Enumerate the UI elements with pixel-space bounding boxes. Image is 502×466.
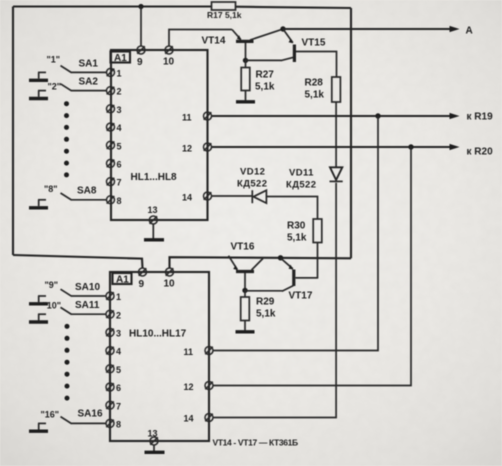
svg-text:R30: R30 (287, 221, 306, 232)
wire: link from R19 line down to pin 11 of A2 (214, 116, 379, 351)
wire: A2 pin 13 to ground (153, 445, 155, 451)
A2 pin 1 (106, 292, 121, 302)
svg-text:A1: A1 (114, 53, 127, 64)
wire: bottom supply rail left segment into pin 9 of A2 (13, 255, 143, 268)
A1 pin 10 (163, 46, 175, 68)
ground under A1 pin 13 (144, 238, 164, 241)
svg-text:КД522: КД522 (237, 179, 267, 190)
switch SA2 (29, 77, 106, 99)
switch SA16 (29, 409, 106, 432)
svg-text:A1: A1 (116, 275, 129, 286)
A1 pin 5 (107, 141, 122, 151)
diode VD11 (286, 167, 343, 190)
svg-text:8: 8 (116, 420, 121, 430)
wire: VT16 base node to VT17 collector (245, 290, 283, 292)
A2 pin 4 (106, 347, 121, 357)
transistor VT15 (281, 29, 337, 77)
svg-text:10: 10 (164, 279, 176, 290)
svg-text:12: 12 (184, 382, 194, 392)
wire: bottom supply rail right segment from pin 10 of A2 (170, 257, 352, 268)
node: R19 line to lower pin 11 riser (375, 113, 380, 118)
wire: pin 12 output to R20 (212, 146, 452, 148)
node: VT16 base / R29 / VT17 collector (242, 288, 247, 293)
svg-text:VT14 - VT17 — КТ361Б: VT14 - VT17 — КТ361Б (213, 438, 299, 448)
svg-text:SA8: SA8 (77, 186, 97, 197)
ground under A2 pin 13 (145, 451, 165, 454)
svg-text:12: 12 (182, 144, 192, 154)
transistor VT17 (281, 258, 318, 302)
svg-text:2: 2 (117, 87, 122, 97)
wire: pin 11 output to R19 (212, 115, 452, 117)
wire: VD11 down, across rail, to pin 14 of A2 (214, 183, 337, 418)
resistor R27 (241, 60, 275, 100)
svg-text:VD12: VD12 (240, 167, 265, 178)
svg-text:5,1k: 5,1k (305, 90, 325, 101)
node: VT14 collector / VT15 emitter / line A (280, 26, 285, 31)
A2 pin 11 (184, 347, 214, 358)
resistor R30 (287, 219, 322, 244)
wire: top supply rail right segment (236, 7, 352, 8)
svg-text:"8": "8" (44, 184, 58, 194)
ground under R29 (236, 330, 255, 333)
resistor R29 (241, 290, 276, 330)
svg-text:SA10: SA10 (75, 282, 100, 293)
A1 pin 6 (107, 159, 122, 169)
A1 pin 3 (107, 105, 122, 115)
wire: left border of rail loop (12, 7, 14, 256)
wire: pin 13 to ground (152, 224, 154, 239)
svg-text:VT16: VT16 (231, 242, 255, 253)
svg-text:6: 6 (117, 160, 122, 170)
svg-text:SA16: SA16 (78, 409, 103, 420)
A1 pin 4 (107, 123, 122, 133)
A2 pin 2 (106, 310, 121, 320)
svg-text:"2": "2" (48, 82, 62, 92)
svg-text:1: 1 (116, 292, 121, 302)
svg-text:5,1k: 5,1k (256, 309, 276, 320)
svg-text:к R19: к R19 (467, 112, 494, 123)
svg-text:"16": "16" (41, 410, 60, 420)
dotted separator between SA11 and SA16 (65, 324, 70, 401)
svg-text:"1": "1" (47, 55, 61, 65)
svg-text:7: 7 (117, 178, 122, 188)
arrow and label к R19 (450, 112, 494, 123)
svg-text:9: 9 (139, 279, 145, 290)
A1 pin 11 (182, 112, 212, 123)
svg-text:9: 9 (137, 57, 143, 68)
wire: R28 down to VD11 (335, 102, 337, 167)
svg-text:VD11: VD11 (289, 168, 314, 179)
transistor VT16 (229, 242, 264, 290)
arrow and label к R20 (450, 144, 494, 158)
svg-text:R27: R27 (256, 70, 275, 81)
svg-text:SA1: SA1 (79, 59, 99, 70)
svg-text:14: 14 (184, 414, 194, 424)
wire: rail to pin 9 of A1 (140, 7, 142, 47)
wire: R30 down to VT17 base (296, 243, 318, 278)
svg-text:11: 11 (182, 113, 192, 123)
switch SA11 (29, 300, 106, 322)
svg-text:5,1k: 5,1k (255, 82, 275, 93)
dotted separator between SA2 and SA8 (64, 101, 69, 177)
svg-text:14: 14 (182, 193, 192, 203)
A1 pin 2 (107, 87, 122, 97)
block designator A1 (111, 52, 131, 65)
svg-text:SA2: SA2 (79, 77, 99, 88)
A2 pin 3 (106, 328, 121, 338)
svg-text:A: A (466, 26, 473, 37)
A2 pin 12 (184, 382, 214, 393)
A1 pin 8 (107, 196, 122, 206)
A1 pin 1 (107, 68, 122, 78)
A1 pin 13 (148, 205, 158, 224)
svg-text:1: 1 (117, 69, 122, 79)
svg-text:"9": "9" (45, 280, 59, 290)
svg-text:HL10...HL17: HL10...HL17 (129, 329, 187, 340)
svg-text:8: 8 (117, 196, 122, 206)
resistor R28 (305, 77, 341, 102)
node: rail / VT17 emitter (278, 255, 283, 260)
A1 pin 9 (137, 46, 145, 68)
wire: right border of rail loop (350, 8, 352, 258)
transistor VT14 (202, 29, 283, 59)
svg-text:4: 4 (116, 347, 121, 357)
A1 pin 7 (107, 178, 122, 188)
svg-text:3: 3 (117, 105, 122, 115)
wire: output line A (283, 28, 452, 30)
svg-text:4: 4 (117, 123, 122, 133)
wire: pin 10 of A1 up and right to VT14 emitter (169, 30, 232, 47)
svg-text:5,1k: 5,1k (287, 233, 307, 244)
A2 pin 13 (148, 429, 159, 446)
wire: top supply rail left segment (13, 5, 212, 7)
block designator A1 (lower) (113, 273, 132, 286)
display block A2 (HL10...HL17) (110, 272, 209, 441)
svg-text:3: 3 (116, 329, 121, 339)
ground under R27 (236, 100, 255, 103)
svg-text:R28: R28 (305, 78, 324, 89)
node: rail junction above pin 9 (138, 4, 143, 9)
node: VT14 base / R27 / VT15 collector (243, 58, 248, 63)
svg-text:10: 10 (163, 57, 175, 68)
switch SA8 (29, 184, 106, 208)
A2 pin 7 (106, 401, 121, 411)
svg-text:"10": "10" (43, 301, 62, 311)
svg-text:SA11: SA11 (75, 300, 100, 311)
display block A1 (HL1...HL8) (111, 50, 208, 220)
svg-text:VT14: VT14 (202, 36, 226, 47)
svg-text:11: 11 (184, 347, 194, 357)
A2 pin 8 (106, 419, 121, 429)
resistor R17 (207, 2, 242, 20)
svg-text:2: 2 (116, 310, 121, 320)
svg-text:КД522: КД522 (286, 180, 316, 191)
svg-text:к R20: к R20 (467, 147, 494, 158)
A2 pin 6 (106, 383, 121, 393)
A2 pin 9 (139, 268, 147, 290)
svg-text:13: 13 (148, 205, 158, 215)
switch SA1 (29, 55, 106, 81)
A2 pin 5 (106, 365, 121, 375)
svg-text:VT15: VT15 (302, 38, 326, 49)
A1 pin 14 (182, 192, 212, 203)
svg-text:7: 7 (116, 401, 121, 411)
svg-text:R29: R29 (256, 297, 275, 308)
diode VD12 (212, 167, 318, 220)
arrow and label A (450, 26, 473, 37)
A2 pin 14 (184, 414, 214, 424)
svg-text:5: 5 (117, 141, 122, 151)
svg-text:6: 6 (116, 383, 121, 393)
svg-text:VT17: VT17 (289, 291, 313, 302)
svg-text:R17 5,1k: R17 5,1k (207, 10, 242, 20)
wire: link from R20 line down to pin 12 of A2 (214, 147, 412, 386)
svg-text:HL1...HL8: HL1...HL8 (131, 172, 178, 183)
A2 pin 10 (164, 268, 176, 290)
svg-text:5: 5 (116, 365, 121, 375)
switch SA10 (29, 280, 106, 304)
A1 pin 12 (182, 143, 212, 154)
svg-text:13: 13 (148, 429, 158, 439)
node: R20 line to lower pin 12 riser (408, 144, 413, 149)
wire: VT14 base node to VT15 collector (246, 59, 282, 61)
